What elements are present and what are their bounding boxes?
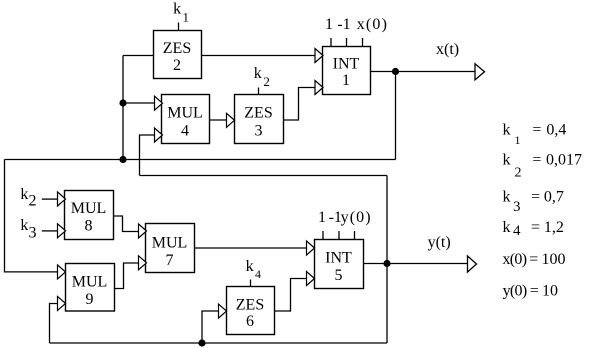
svg-text:MUL: MUL [71, 200, 107, 217]
svg-text:3: 3 [513, 199, 521, 215]
svg-text:=: = [532, 122, 541, 139]
svg-text:k: k [20, 217, 28, 234]
svg-text:0,7: 0,7 [544, 188, 564, 205]
svg-text:ZES: ZES [163, 40, 191, 57]
svg-text:k: k [20, 186, 28, 203]
svg-text:MUL: MUL [72, 274, 108, 291]
svg-text:1: 1 [183, 9, 190, 24]
svg-text:4: 4 [255, 267, 261, 281]
svg-text:y(0): y(0) [503, 283, 527, 300]
svg-text:6: 6 [246, 313, 254, 330]
svg-text:1: 1 [515, 133, 521, 147]
svg-text:k: k [173, 1, 181, 18]
svg-text:ZES: ZES [244, 105, 272, 122]
svg-text:0,017: 0,017 [546, 152, 582, 169]
svg-text:=: = [531, 219, 540, 236]
svg-text:5: 5 [335, 267, 343, 284]
svg-text:INT: INT [325, 250, 352, 267]
svg-text:3: 3 [29, 224, 37, 241]
svg-text:ZES: ZES [236, 297, 264, 314]
svg-text:8: 8 [85, 217, 93, 234]
svg-text:4: 4 [181, 122, 189, 139]
svg-text:10: 10 [542, 283, 558, 300]
svg-text:7: 7 [166, 252, 174, 269]
svg-text:100: 100 [542, 251, 566, 268]
svg-text:INT: INT [333, 55, 360, 72]
svg-text:=: = [531, 188, 540, 205]
svg-text:2: 2 [515, 166, 522, 181]
svg-text:4: 4 [513, 223, 521, 239]
svg-text:k: k [503, 152, 511, 169]
svg-text:k: k [246, 258, 254, 275]
svg-text:1: 1 [325, 16, 333, 33]
svg-text:k: k [503, 122, 511, 139]
svg-text:MUL: MUL [167, 105, 203, 122]
svg-text:k: k [503, 188, 511, 205]
svg-text:1: 1 [342, 72, 350, 89]
svg-text:k: k [503, 219, 511, 236]
svg-text:9: 9 [86, 291, 94, 308]
svg-text:2: 2 [29, 192, 37, 209]
svg-text:y(t): y(t) [428, 234, 451, 251]
svg-text:3: 3 [255, 122, 263, 139]
svg-text:2: 2 [263, 74, 270, 89]
svg-text:x(0): x(0) [503, 251, 527, 268]
svg-text:x(t): x(t) [436, 41, 459, 58]
svg-text:=: = [530, 283, 539, 300]
svg-text:1,2: 1,2 [544, 219, 564, 236]
svg-text:=: = [532, 152, 541, 169]
svg-text:k: k [254, 65, 262, 82]
svg-text:1: 1 [318, 209, 326, 226]
svg-text:x(0): x(0) [357, 16, 388, 33]
svg-text:MUL: MUL [152, 234, 188, 251]
svg-text:2: 2 [173, 57, 181, 74]
svg-text:=: = [529, 251, 538, 268]
svg-text:y(0): y(0) [341, 209, 372, 226]
svg-text:-1: -1 [337, 16, 350, 33]
svg-text:0,4: 0,4 [546, 122, 566, 139]
